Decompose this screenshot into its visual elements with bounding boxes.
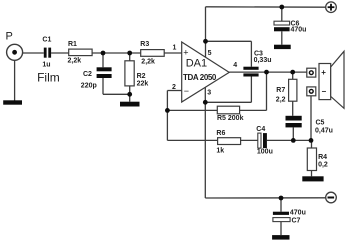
svg-text:0,33u: 0,33u <box>254 57 272 64</box>
svg-text:Film: Film <box>37 71 60 85</box>
svg-text:C4: C4 <box>256 126 265 133</box>
svg-text:3: 3 <box>207 90 211 97</box>
svg-text:220p: 220p <box>81 82 97 89</box>
svg-text:0,47u: 0,47u <box>315 128 333 135</box>
svg-text:DA1: DA1 <box>186 57 207 69</box>
svg-text:R1: R1 <box>68 41 77 48</box>
svg-text:2: 2 <box>172 84 176 91</box>
svg-text:470u: 470u <box>291 27 307 34</box>
svg-text:2,2k: 2,2k <box>68 58 82 65</box>
svg-text:4: 4 <box>233 62 237 69</box>
svg-text:0,2: 0,2 <box>318 162 328 169</box>
svg-text:1k: 1k <box>216 148 224 155</box>
svg-text:R7: R7 <box>276 87 285 94</box>
svg-text:C5: C5 <box>316 119 325 126</box>
svg-text:100u: 100u <box>257 149 273 156</box>
svg-text:+: + <box>321 68 326 77</box>
svg-text:−: − <box>184 86 189 96</box>
svg-text:P: P <box>6 31 13 43</box>
svg-text:470u: 470u <box>290 210 306 217</box>
svg-text:1: 1 <box>173 45 177 52</box>
svg-text:+: + <box>183 48 188 58</box>
svg-text:R6: R6 <box>216 130 225 137</box>
svg-text:R2: R2 <box>137 73 146 80</box>
svg-text:C1: C1 <box>42 37 51 44</box>
svg-text:5: 5 <box>208 50 212 57</box>
svg-text:22k: 22k <box>137 81 149 88</box>
svg-text:2,2: 2,2 <box>276 97 286 104</box>
svg-text:1u: 1u <box>42 62 50 69</box>
svg-text:C7: C7 <box>292 217 301 224</box>
svg-text:TDA 2050: TDA 2050 <box>183 73 217 82</box>
svg-text:R3: R3 <box>140 41 149 48</box>
svg-text:C2: C2 <box>83 71 92 78</box>
svg-text:2,2k: 2,2k <box>141 59 155 66</box>
svg-text:R5 200k: R5 200k <box>217 115 244 122</box>
svg-text:R4: R4 <box>318 154 327 161</box>
svg-text:−: − <box>322 87 327 96</box>
